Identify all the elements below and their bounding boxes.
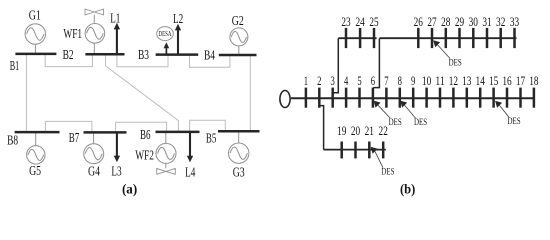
svg-text:B3: B3	[138, 47, 149, 62]
generator G1	[25, 24, 45, 44]
wire G3 stem	[238, 131, 240, 143]
wire G2 stem	[238, 46, 240, 55]
svg-text:7: 7	[384, 74, 389, 88]
bus 26 tick	[417, 28, 420, 48]
bus 11 tick	[439, 88, 442, 108]
branch line buses 19-22	[324, 149, 386, 151]
svg-text:G5: G5	[29, 163, 41, 178]
bus B4	[219, 54, 257, 57]
svg-text:B4: B4	[204, 48, 215, 63]
svg-text:29: 29	[455, 15, 464, 29]
svg-text:3: 3	[331, 74, 335, 88]
svg-text:15: 15	[489, 74, 498, 88]
DES pointer at bus 28	[433, 40, 462, 68]
load arrow L3	[114, 132, 120, 162]
DES pointer at bus 21	[371, 147, 395, 178]
svg-text:30: 30	[469, 15, 478, 29]
wire B2-B6 diagonal	[106, 55, 179, 132]
bus 3 tick	[331, 88, 334, 108]
bus B2	[85, 53, 124, 56]
svg-text:28: 28	[441, 15, 450, 29]
svg-text:B8: B8	[7, 133, 18, 148]
svg-text:B6: B6	[140, 127, 151, 142]
wind generator WF1	[85, 24, 105, 44]
bus 27 tick	[431, 28, 434, 48]
svg-text:(b): (b)	[400, 182, 415, 197]
bus B5	[218, 130, 260, 133]
svg-text:B7: B7	[69, 130, 80, 145]
bus 15 tick	[492, 88, 495, 108]
svg-text:B5: B5	[206, 131, 217, 146]
load arrow L4	[187, 132, 193, 162]
svg-text:WF1: WF1	[63, 26, 82, 41]
svg-text:WF2: WF2	[135, 147, 154, 162]
svg-text:31: 31	[482, 15, 491, 29]
wire B1-B2	[45, 54, 92, 67]
wind generator WF2	[156, 143, 176, 163]
svg-text:L1: L1	[110, 10, 120, 25]
svg-text:21: 21	[365, 124, 374, 138]
svg-text:G4: G4	[88, 164, 100, 179]
svg-text:26: 26	[414, 15, 424, 29]
bus 7 tick	[385, 88, 388, 108]
wire B7-B6	[116, 122, 167, 132]
svg-text:19: 19	[337, 124, 346, 138]
generator G3	[229, 143, 249, 163]
wire B1-B8	[25, 54, 27, 132]
bus 14 tick	[479, 88, 482, 108]
svg-text:6: 6	[371, 74, 376, 88]
svg-text:24: 24	[355, 15, 365, 29]
svg-text:13: 13	[462, 74, 471, 88]
svg-text:33: 33	[510, 15, 519, 29]
bus B6	[156, 131, 200, 134]
svg-text:B2: B2	[63, 47, 74, 62]
bus 25 tick	[373, 28, 376, 48]
bus 10 tick	[425, 88, 428, 108]
generator G4	[84, 144, 104, 164]
bus 18 tick	[533, 88, 536, 108]
svg-text:23: 23	[341, 15, 350, 29]
svg-text:B1: B1	[10, 58, 20, 73]
bus 4 tick	[345, 88, 348, 108]
bus 13 tick	[466, 88, 469, 108]
svg-text:18: 18	[529, 74, 538, 88]
svg-text:DESA: DESA	[159, 29, 172, 38]
svg-text:1: 1	[304, 74, 308, 88]
generator G5	[27, 146, 45, 164]
wire G1 stem	[34, 44, 36, 54]
DESA source ellipse	[157, 27, 174, 41]
bus 24 tick	[359, 28, 362, 48]
bus 6 tick	[372, 88, 375, 108]
branch line buses 26-33	[379, 37, 516, 39]
svg-text:9: 9	[411, 74, 415, 88]
svg-text:2: 2	[317, 74, 321, 88]
DES pointer at bus 7	[374, 101, 402, 128]
svg-text:G2: G2	[232, 13, 244, 28]
bus 12 tick	[452, 88, 455, 108]
svg-text:14: 14	[476, 74, 486, 88]
svg-text:4: 4	[344, 74, 349, 88]
bus 30 tick	[472, 28, 475, 48]
bus 17 tick	[519, 88, 522, 108]
bus 32 tick	[499, 28, 502, 48]
svg-text:16: 16	[502, 74, 512, 88]
svg-text:25: 25	[369, 15, 378, 29]
bus B8	[15, 131, 60, 134]
wire B3-B4	[190, 55, 230, 68]
bus B3	[156, 53, 199, 56]
bus 29 tick	[458, 28, 461, 48]
svg-text:DES: DES	[381, 167, 394, 178]
bus 31 tick	[486, 28, 489, 48]
svg-text:L4: L4	[185, 165, 195, 180]
svg-text:L3: L3	[111, 164, 121, 179]
svg-text:10: 10	[422, 74, 431, 88]
svg-text:12: 12	[449, 74, 458, 88]
svg-text:DES: DES	[414, 117, 427, 128]
branch line buses 23-25	[338, 37, 376, 39]
wire G4 stem	[93, 132, 95, 143]
main feeder line buses 1-18	[291, 97, 535, 99]
wire branch 23-25 riser from bus 3	[333, 38, 338, 93]
bus 20 tick	[354, 142, 357, 159]
bus 1 tick	[305, 88, 308, 108]
svg-text:32: 32	[496, 15, 505, 29]
svg-text:G1: G1	[29, 8, 41, 23]
wire branch 26-33 riser from bus 6	[373, 38, 379, 87]
svg-text:DES: DES	[508, 116, 521, 127]
bus 9 tick	[412, 88, 415, 108]
svg-text:(a): (a)	[122, 182, 137, 197]
source circle	[280, 91, 290, 108]
svg-text:17: 17	[516, 74, 526, 88]
wire B8-B7	[45, 121, 92, 132]
bus 23 tick	[345, 28, 348, 48]
svg-text:11: 11	[435, 74, 444, 88]
DES pointer at bus 15	[495, 101, 520, 127]
svg-text:27: 27	[427, 15, 437, 29]
wire WF2 stems	[165, 132, 167, 144]
bus B7	[84, 131, 127, 134]
wire B6-B5	[190, 120, 226, 132]
wire G5 stem	[35, 132, 37, 146]
bus 8 tick	[399, 88, 402, 108]
bus 22 tick	[382, 142, 385, 159]
generator G2	[230, 28, 248, 46]
svg-text:DES: DES	[449, 57, 462, 68]
svg-text:DES: DES	[389, 117, 402, 128]
wind turbine rotor WF1	[85, 9, 104, 15]
bus 19 tick	[340, 142, 343, 159]
load arrow L2	[175, 24, 181, 55]
bus 28 tick	[445, 28, 448, 48]
bus B1	[15, 53, 56, 56]
svg-text:G3: G3	[233, 165, 245, 180]
wire B2-B3	[117, 55, 168, 67]
bus 33 tick	[513, 28, 516, 48]
svg-text:22: 22	[379, 124, 388, 138]
bus 2 tick	[318, 88, 321, 108]
svg-text:5: 5	[357, 74, 361, 88]
svg-text:20: 20	[351, 124, 360, 138]
DES pointer at bus 8	[400, 101, 427, 128]
wire WF1 stems	[93, 15, 95, 24]
svg-text:8: 8	[398, 74, 402, 88]
load arrow L1	[114, 23, 120, 54]
svg-text:L2: L2	[173, 11, 183, 26]
wire branch 19-22 riser from bus 2	[320, 106, 324, 150]
wire B4-B5	[249, 55, 251, 131]
bus 16 tick	[506, 88, 509, 108]
arrow DESA injection	[164, 42, 170, 54]
wind turbine rotor WF2	[157, 168, 176, 174]
bus 5 tick	[358, 88, 361, 108]
bus 21 tick	[368, 142, 371, 159]
